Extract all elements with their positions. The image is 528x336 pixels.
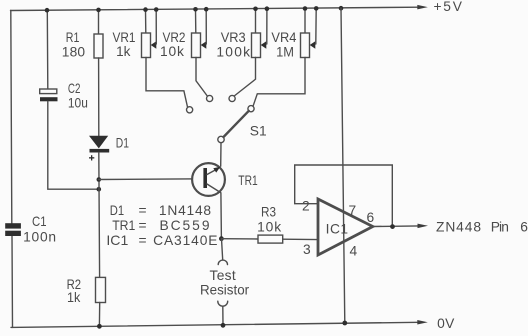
svg-text:1k: 1k xyxy=(116,44,130,59)
wire feedback loop xyxy=(295,165,393,227)
junction output node xyxy=(390,224,395,229)
svg-text:VR2: VR2 xyxy=(163,30,186,45)
wire IC power pin7 pin4 xyxy=(341,8,345,323)
capacitor C2 xyxy=(40,89,58,101)
svg-text:CA3140E: CA3140E xyxy=(153,233,217,248)
svg-text:S1: S1 xyxy=(250,123,267,138)
junction collector node xyxy=(219,236,224,241)
transistor TR1 xyxy=(192,163,225,196)
wire output xyxy=(373,224,428,229)
wire collector xyxy=(220,193,223,239)
svg-text:TR1: TR1 xyxy=(238,173,257,188)
svg-text:+5V: +5V xyxy=(434,0,463,14)
R2 label xyxy=(67,277,82,305)
svg-text:R1: R1 xyxy=(66,30,80,45)
wire base xyxy=(99,178,204,181)
svg-text:VR1: VR1 xyxy=(113,30,136,45)
VR2 label xyxy=(160,30,186,59)
svg-text:D1: D1 xyxy=(116,135,129,150)
svg-text:BC559: BC559 xyxy=(160,218,210,233)
svg-text:D1: D1 xyxy=(110,203,124,218)
svg-text:TR1: TR1 xyxy=(112,218,135,233)
svg-text:10k: 10k xyxy=(257,219,281,234)
svg-text:2: 2 xyxy=(302,198,310,213)
junction test ground xyxy=(221,323,226,328)
junction top rail dots xyxy=(45,6,344,13)
wire S1 pole to TR1 emitter xyxy=(220,143,222,166)
R3 label xyxy=(257,204,281,234)
svg-text:VR3: VR3 xyxy=(221,30,246,45)
svg-text:=: = xyxy=(139,218,147,233)
wire C2 column top xyxy=(46,10,49,89)
svg-text:ZN448: ZN448 xyxy=(436,220,481,235)
junction base node xyxy=(97,177,102,182)
+5V rail xyxy=(11,5,428,11)
diode D1 xyxy=(89,136,109,161)
svg-text:IC1: IC1 xyxy=(326,221,349,236)
capacitor C1 xyxy=(5,223,21,236)
potentiometer VR3 xyxy=(234,9,267,96)
svg-text:10u: 10u xyxy=(68,96,88,111)
VR4 label xyxy=(271,30,296,59)
test resistor terminal top xyxy=(218,239,227,265)
Test Resistor label xyxy=(200,268,249,298)
resistor R1 xyxy=(94,10,103,136)
R1 label xyxy=(62,30,86,59)
ZN448 Pin 6 label xyxy=(436,220,528,235)
resistor R2 xyxy=(96,277,106,326)
op-amp IC1 xyxy=(318,199,373,255)
svg-text:=: = xyxy=(139,203,147,218)
junction IC ground xyxy=(342,321,347,326)
junction R2 ground xyxy=(97,324,102,329)
C1 label xyxy=(23,214,56,245)
VR1 label xyxy=(113,30,136,59)
svg-text:VR4: VR4 xyxy=(271,30,296,45)
resistor R3 xyxy=(221,235,318,243)
svg-text:Resistor: Resistor xyxy=(200,283,249,298)
0V rail xyxy=(11,320,428,327)
test resistor terminal bottom xyxy=(218,301,228,325)
svg-text:1M: 1M xyxy=(276,44,294,59)
svg-text:1k: 1k xyxy=(67,290,80,305)
svg-text:0V: 0V xyxy=(437,316,455,331)
wire left rail lower xyxy=(11,236,14,327)
svg-text:Pin: Pin xyxy=(491,220,509,235)
svg-text:6: 6 xyxy=(520,220,528,235)
potentiometer VR4 xyxy=(253,8,316,106)
component values text block xyxy=(106,203,217,248)
svg-text:=: = xyxy=(139,233,147,248)
svg-text:10k: 10k xyxy=(160,44,184,59)
svg-text:6: 6 xyxy=(367,210,375,225)
svg-text:3: 3 xyxy=(303,242,311,257)
svg-text:IC1: IC1 xyxy=(106,233,128,248)
potentiometer VR2 xyxy=(192,9,208,96)
wire D1 to R2 column xyxy=(98,153,101,278)
svg-text:100n: 100n xyxy=(23,230,56,245)
svg-text:C1: C1 xyxy=(32,214,47,229)
svg-text:100k: 100k xyxy=(216,45,250,60)
potentiometer VR1 xyxy=(142,10,188,108)
svg-text:180: 180 xyxy=(62,45,86,60)
wire left rail upper xyxy=(11,11,12,224)
wire C2 column bottom xyxy=(48,101,99,189)
svg-text:7: 7 xyxy=(349,203,357,218)
svg-text:4: 4 xyxy=(350,244,358,259)
svg-text:1N4148: 1N4148 xyxy=(159,203,212,218)
svg-text:Test: Test xyxy=(210,268,236,283)
svg-text:C2: C2 xyxy=(68,81,81,96)
switch S1 xyxy=(187,95,255,142)
VR3 label xyxy=(216,30,250,59)
junction C2 return xyxy=(97,187,102,192)
C2 label xyxy=(68,81,88,111)
svg-text:R3: R3 xyxy=(261,204,276,219)
